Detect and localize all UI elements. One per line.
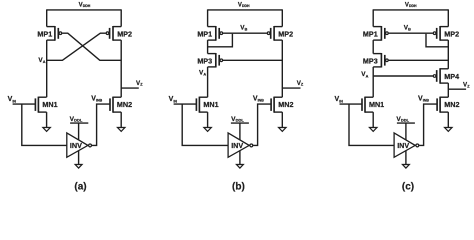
wire VDDH to MP1 source (c): [372, 9, 374, 26]
supply label VDDH (b): [238, 2, 250, 8]
svg-text:DDL: DDL: [236, 117, 245, 122]
svg-text:A: A: [203, 72, 206, 76]
label MP2 (a): [117, 29, 132, 38]
label MP1 (b): [197, 29, 212, 38]
wire inverter output to MN2 gate (c): [419, 104, 437, 145]
ground MN2 (a): [118, 128, 125, 132]
wire MN1 source to ground (a): [46, 112, 48, 127]
wire MN2 source to ground (b): [281, 112, 283, 127]
power rail VDDH (b): [208, 9, 283, 11]
node VINB label (a): [91, 95, 102, 102]
wire inverter to ground (c): [405, 150, 407, 164]
input label VIN (c): [335, 96, 344, 103]
node VZ label (b): [297, 80, 304, 87]
wire VDDH to MP1 source (a): [46, 9, 48, 26]
label MP4 (c): [444, 72, 459, 81]
label MN1 (c): [369, 100, 384, 109]
inverter output bubble (c): [416, 144, 419, 147]
inverter INV triangle (a): [67, 133, 88, 157]
ground MN2 (b): [279, 128, 286, 132]
supply bar VDDL (c): [397, 122, 415, 124]
svg-text:IN: IN: [173, 99, 177, 103]
svg-text:MN2: MN2: [278, 100, 293, 109]
label INV (b): [231, 141, 243, 150]
svg-text:DDL: DDL: [74, 117, 83, 122]
svg-text:B: B: [408, 28, 411, 32]
svg-text:MP4: MP4: [444, 72, 459, 81]
node VB label (b): [240, 25, 247, 32]
caption (b): [232, 181, 245, 192]
node VA label (c): [361, 71, 368, 78]
svg-text:(b): (b): [232, 181, 245, 192]
ground MN1 (a): [43, 128, 50, 132]
caption (c): [402, 181, 414, 192]
supply label VDDL (b): [231, 116, 244, 123]
node VB wire MP1 gate to MP2 gate (b): [223, 32, 267, 34]
transistor MN1 (b): [196, 97, 207, 113]
svg-text:MP3: MP3: [197, 56, 212, 65]
svg-text:DDH: DDH: [242, 4, 250, 8]
label MN2 (b): [278, 100, 293, 109]
svg-text:MN2: MN2: [444, 100, 459, 109]
inverter INV triangle (b): [228, 133, 249, 157]
wire MP2 gate cross-couple to node VA (a): [47, 33, 106, 60]
svg-text:MP2: MP2: [444, 29, 459, 38]
wire node VA to MP4 gate (c): [373, 75, 433, 77]
label MN1 (b): [203, 100, 218, 109]
wire MN2 source to ground (a): [120, 112, 122, 127]
label INV (c): [397, 141, 409, 150]
label MN2 (a): [117, 100, 132, 109]
wire inverter output to MN2 gate (b): [253, 104, 271, 145]
node VINB label (c): [418, 95, 429, 102]
transistor MP3 (b): [208, 53, 223, 68]
svg-text:INV: INV: [397, 141, 409, 150]
supply label VDDH (a): [79, 2, 91, 8]
label MP2 (b): [278, 29, 293, 38]
svg-text:MP1: MP1: [37, 29, 52, 38]
ground MN1 (b): [204, 128, 211, 132]
label MP3 (b): [197, 56, 212, 65]
transistor MN2 (c): [437, 97, 448, 113]
transistor MP2 (b): [267, 26, 282, 41]
wire VIN junction down to inverter input (b): [182, 104, 228, 145]
svg-text:DDL: DDL: [401, 117, 410, 122]
transistor MP2 (a): [106, 26, 121, 41]
wire MP1 drain to MP3 source (b): [207, 40, 209, 54]
node VZ stub (a): [121, 87, 139, 89]
inverter output bubble (b): [250, 144, 253, 147]
node VA label (a): [38, 57, 45, 64]
svg-text:MN1: MN1: [203, 100, 218, 109]
ground inverter (a): [75, 165, 82, 169]
wire MP3 gate to node VZ (b): [223, 59, 282, 61]
wire VIN to MN1 gate (a): [13, 103, 36, 105]
svg-text:MP2: MP2: [278, 29, 293, 38]
ground MN2 (c): [445, 128, 452, 132]
svg-text:A: A: [366, 74, 369, 78]
svg-text:MN2: MN2: [117, 100, 132, 109]
wire VIN to MN1 gate (b): [174, 103, 197, 105]
wire MP1 gate cross-couple to node VZ (a): [62, 33, 121, 60]
label MP2 (c): [444, 29, 459, 38]
label MP1 (c): [363, 29, 378, 38]
transistor MP1 (b): [208, 26, 223, 41]
wire VIN junction down to inverter input (c): [349, 104, 394, 145]
label MP3 (c): [363, 56, 378, 65]
wire MP3 gate to MP2 drain node (c): [389, 59, 449, 61]
node VINB label (b): [253, 95, 264, 102]
supply label VDDL (c): [396, 116, 409, 123]
svg-text:(c): (c): [402, 181, 414, 192]
power rail VDDH (c): [373, 9, 448, 11]
transistor MN2 (b): [271, 97, 282, 113]
supply bar VDDL (a): [70, 122, 88, 124]
transistor MP1 (a): [47, 26, 62, 41]
svg-text:(a): (a): [74, 181, 86, 192]
wire MP2 drain to MP4 source (c): [447, 40, 449, 69]
caption (a): [74, 181, 86, 192]
svg-text:MP1: MP1: [197, 29, 212, 38]
wire VIN junction down to inverter input (a): [22, 104, 67, 145]
svg-text:A: A: [43, 60, 46, 64]
wire MP2 drain to MN2 drain (b): [281, 40, 283, 97]
wire VDDH to MP2 source (b): [281, 9, 283, 26]
wire MP2 diode connection to gate (c): [426, 34, 448, 47]
node VB label (c): [404, 25, 411, 32]
svg-text:INV: INV: [231, 141, 243, 150]
inverter output bubble (a): [89, 144, 92, 147]
input label VIN (a): [8, 96, 17, 103]
wire MP3 drain to MN1 drain (b): [207, 67, 209, 97]
wire VDDL bar to inverter (c): [405, 123, 407, 140]
wire MP2 drain to MN2 drain (a): [120, 40, 122, 97]
wire VDDH to MP2 source (a): [120, 9, 122, 26]
ground inverter (c): [403, 165, 410, 169]
node VZ stub (b): [282, 87, 300, 89]
wire VDDL bar to inverter (b): [239, 123, 241, 140]
wire VDDH to MP1 source (b): [207, 9, 209, 26]
wire MN1 source to ground (c): [372, 112, 374, 127]
label MP1 (a): [37, 29, 52, 38]
supply label VDDH (c): [405, 2, 417, 8]
wire inverter output to MN2 gate (a): [92, 104, 110, 145]
ground inverter (b): [237, 165, 244, 169]
label INV (a): [70, 141, 82, 150]
svg-text:DDH: DDH: [409, 4, 417, 8]
wire MP1 drain to MN1 drain (a): [46, 40, 48, 97]
label MN2 (c): [444, 100, 459, 109]
ground MN1 (c): [370, 128, 377, 132]
wire VDDH to MP2 source (c): [447, 9, 449, 26]
svg-text:INV: INV: [70, 141, 82, 150]
label MN1 (a): [42, 100, 57, 109]
svg-text:INB: INB: [258, 99, 265, 103]
supply label VDDL (a): [70, 116, 83, 123]
wire inverter to ground (b): [239, 150, 241, 164]
transistor MP1 (c): [373, 26, 388, 41]
inverter INV triangle (c): [394, 133, 415, 157]
node VZ stub (c): [448, 88, 466, 90]
node VZ label (a): [136, 80, 143, 87]
transistor MN2 (a): [110, 97, 121, 113]
wire MP4 drain to MN2 drain (c): [447, 83, 449, 97]
wire VDDL bar to inverter (a): [78, 123, 80, 140]
svg-text:IN: IN: [339, 99, 343, 103]
wire MP1 diode connection to gate (b): [208, 34, 233, 47]
svg-text:MN1: MN1: [369, 100, 384, 109]
wire VIN to MN1 gate (c): [340, 103, 363, 105]
node VA label (b): [199, 69, 206, 76]
transistor MP2 (c): [433, 26, 448, 41]
svg-text:INB: INB: [423, 99, 430, 103]
svg-text:INB: INB: [96, 99, 103, 103]
svg-text:DDH: DDH: [83, 4, 91, 8]
svg-text:B: B: [245, 28, 248, 32]
svg-text:IN: IN: [12, 99, 16, 103]
svg-text:MN1: MN1: [42, 100, 57, 109]
input label VIN (b): [169, 96, 178, 103]
power rail VDDH (a): [47, 9, 122, 11]
wire inverter to ground (a): [78, 150, 80, 164]
wire MP1 drain to MP3 source (c): [372, 40, 374, 54]
transistor MP4 (c): [433, 68, 448, 84]
wire MN2 source to ground (c): [447, 112, 449, 127]
supply bar VDDL (b): [231, 122, 249, 124]
svg-text:MP1: MP1: [363, 29, 378, 38]
wire MN1 source to ground (b): [207, 112, 209, 127]
svg-text:MP3: MP3: [363, 56, 378, 65]
transistor MN1 (a): [35, 97, 46, 113]
node VZ label (c): [463, 82, 470, 89]
wire MP3 drain to MN1 drain (c): [372, 67, 374, 97]
transistor MN1 (c): [362, 97, 373, 113]
transistor MP3 (c): [373, 53, 388, 68]
node VB wire MP1 gate to MP2 gate (c): [389, 32, 433, 34]
svg-text:MP2: MP2: [117, 29, 132, 38]
